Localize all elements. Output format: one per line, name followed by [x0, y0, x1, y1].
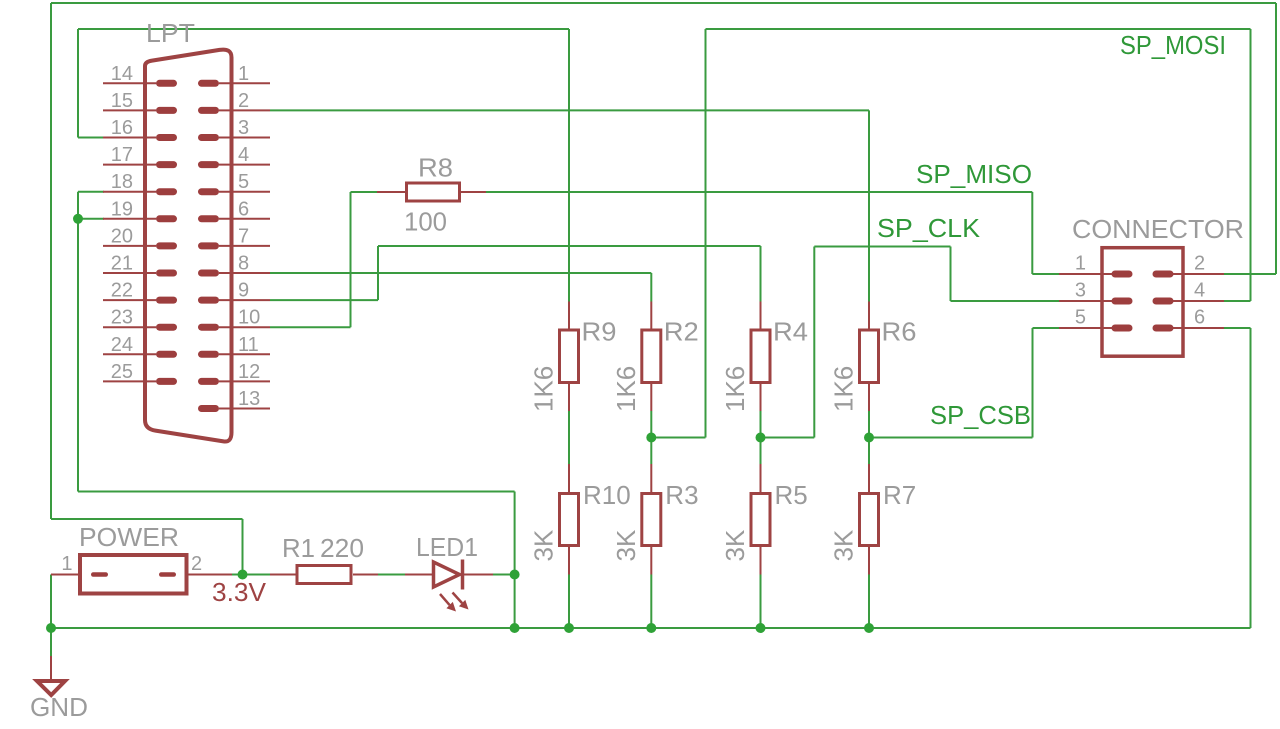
resistor R5 top lead: [760, 464, 762, 494]
wire LED cathode to GND link: [493, 574, 515, 576]
wire R6 column vertical: [868, 110, 870, 301]
wire LPT pin 24 lead: [103, 353, 156, 355]
svg-text:8: 8: [238, 253, 249, 275]
svg-text:21: 21: [111, 253, 133, 275]
LED LED1 light arrow 2: [453, 593, 469, 610]
pad LPT pin 19: [156, 215, 177, 222]
svg-text:5: 5: [238, 171, 249, 193]
wire POWER pin2 lead: [189, 574, 233, 576]
svg-text:2: 2: [191, 553, 202, 575]
LED LED1 triangle: [434, 562, 460, 587]
pad LPT pin 1: [198, 80, 219, 87]
ground GND triangle: [37, 681, 65, 695]
resistor R10 bottom lead: [568, 546, 570, 575]
wire LPT pin 25 lead: [103, 380, 156, 382]
wire SP_MISO R8 left lead link: [351, 191, 378, 193]
wire connector pin 3 lead: [1059, 300, 1112, 302]
wire connector pin 4 lead: [1173, 300, 1224, 302]
resistor R2 body: [642, 330, 661, 383]
svg-text:14: 14: [111, 63, 133, 85]
svg-text:SP_MISO: SP_MISO: [916, 159, 1032, 189]
pad connector pin 4: [1153, 298, 1174, 305]
wire 3K resistor bottom green segment column 3: [760, 575, 762, 629]
wire connector pin 5 lead: [1059, 327, 1112, 329]
resistor R4 bottom lead: [760, 383, 762, 412]
svg-text:1: 1: [1075, 253, 1086, 275]
svg-text:R6: R6: [882, 317, 917, 347]
wire LPT pin 20 lead: [103, 245, 156, 247]
resistor R5 body: [751, 494, 770, 546]
LED LED1 cathode lead: [463, 574, 494, 576]
wire LPT pin18 horizontal stub: [78, 191, 104, 193]
svg-text:R3: R3: [665, 480, 698, 510]
wire LPT pin 19 lead: [103, 218, 156, 220]
wire 3K resistor bottom green segment column 4: [868, 575, 870, 629]
resistor R1 left lead: [270, 574, 296, 576]
wire LPT pin8 horizontal to R2 column: [270, 272, 651, 274]
wire SP_MISO vertical x=1032 to connector pin1: [1031, 192, 1033, 274]
svg-text:22: 22: [111, 280, 133, 302]
pad LPT pin 13: [198, 405, 219, 412]
pad LPT pin 2: [198, 107, 219, 114]
svg-text:2: 2: [238, 90, 249, 112]
resistor R3 top lead: [650, 464, 652, 494]
wire 3.3V right border vertical: [1275, 3, 1277, 274]
wire divider mid green segment column 2: [650, 411, 652, 464]
wire LPT pin 11 lead: [219, 353, 270, 355]
wire LPT pin 12 lead: [219, 380, 270, 382]
wire connector pin6 horizontal: [1224, 327, 1251, 329]
wire LPT pin 1 lead: [219, 82, 270, 84]
LED LED1 cathode bar: [461, 560, 465, 590]
resistor R4 top lead: [760, 302, 762, 331]
resistor R7 top lead: [868, 464, 870, 494]
resistor R10 top lead: [568, 464, 570, 494]
pad LPT pin 3: [198, 134, 219, 141]
svg-text:17: 17: [111, 144, 133, 166]
wire LPT pin 2 lead: [219, 109, 270, 111]
wire LPT pin9 vertical riser x=378: [377, 246, 379, 300]
wire LPT pin 18 lead: [103, 191, 156, 193]
svg-text:1: 1: [61, 553, 72, 575]
svg-text:R8: R8: [418, 153, 453, 183]
connector POWER body: [80, 555, 187, 594]
pad LPT pin 8: [198, 270, 219, 277]
pad LPT pin 12: [198, 378, 219, 385]
wire LPT pin 5 lead: [219, 191, 270, 193]
resistor R8 body: [407, 183, 460, 201]
svg-text:13: 13: [238, 388, 260, 410]
svg-text:2: 2: [1194, 253, 1205, 275]
resistor R9 body: [560, 330, 579, 383]
wire R2 column vertical: [650, 273, 652, 302]
pad LPT pin 5: [198, 188, 219, 195]
resistor R8 left lead: [377, 191, 406, 193]
wire LPT pin 10 lead: [219, 326, 270, 328]
wire LPT pin 8 lead: [219, 272, 270, 274]
pad POWER pin 1: [91, 572, 108, 577]
wire LPT pin 23 lead: [103, 326, 156, 328]
wire LPT pin 9 lead: [219, 299, 270, 301]
wire LPT pin2 horizontal to R6 column: [270, 109, 869, 111]
svg-text:7: 7: [238, 225, 249, 247]
svg-text:1: 1: [238, 63, 249, 85]
wire connector pin 2 lead: [1173, 273, 1224, 275]
svg-text:10: 10: [238, 307, 260, 329]
resistor R3 bottom lead: [650, 546, 652, 575]
pad LPT pin 11: [198, 351, 219, 358]
node junction GND rail R7: [864, 623, 874, 633]
svg-text:R2: R2: [664, 317, 699, 347]
svg-text:20: 20: [111, 225, 133, 247]
resistor R4 body: [751, 330, 770, 383]
pad LPT pin 9: [198, 297, 219, 304]
wire SP_CSB vertical x=1032.5: [1032, 328, 1034, 438]
svg-text:9: 9: [238, 280, 249, 302]
svg-text:R4: R4: [773, 317, 808, 347]
wire GND bottom rail: [51, 627, 1251, 629]
svg-text:CONNECTOR: CONNECTOR: [1072, 214, 1244, 244]
pad LPT pin 4: [198, 161, 219, 168]
svg-text:25: 25: [111, 361, 133, 383]
wire LPT pin 7 lead: [219, 245, 270, 247]
wire 3.3V link horizontal y=519: [51, 518, 243, 520]
resistor R5 bottom lead: [760, 546, 762, 575]
wire LPT pin9 horizontal: [270, 299, 378, 301]
pad LPT pin 21: [156, 270, 177, 277]
wire connector pin 1 lead: [1059, 273, 1112, 275]
svg-text:R5: R5: [775, 480, 808, 510]
svg-text:1K6: 1K6: [720, 366, 750, 412]
wire SP_MOSI LPT pin16 vertical x=78: [77, 29, 79, 138]
resistor R6 body: [860, 330, 879, 383]
svg-text:SP_CSB: SP_CSB: [930, 400, 1031, 430]
wire 3.3V left border vertical: [50, 3, 52, 519]
svg-text:R1: R1: [282, 533, 315, 563]
wire connector pin 6 lead: [1173, 327, 1224, 329]
svg-text:3K: 3K: [720, 529, 750, 561]
wire connector pin1 horizontal: [1032, 273, 1059, 275]
wire LPT pin 16 lead: [103, 137, 156, 139]
wire 3.3V connector pin2 horizontal: [1224, 273, 1276, 275]
wire power pin2 junction link: [232, 574, 270, 576]
svg-text:1K6: 1K6: [829, 366, 859, 412]
pad LPT pin 24: [156, 351, 177, 358]
svg-text:12: 12: [238, 361, 260, 383]
wire LPT pin 21 lead: [103, 272, 156, 274]
svg-text:5: 5: [1075, 307, 1086, 329]
wire SP_CLK tap from R4 divider horizontal: [761, 437, 815, 439]
svg-text:19: 19: [111, 198, 133, 220]
node junction GND rail x=514.6: [510, 623, 520, 633]
wire SP_CSB horizontal from R6 divider: [869, 437, 1033, 439]
resistor R7 bottom lead: [868, 546, 870, 575]
resistor R10 body: [560, 494, 579, 546]
wire LPT pin 3 lead: [219, 137, 270, 139]
pad connector pin 1: [1112, 271, 1133, 278]
svg-text:3: 3: [238, 117, 249, 139]
node junction R2 divider mid: [646, 433, 656, 443]
wire GND branch horizontal y=491.5: [78, 491, 515, 493]
wire divider mid green segment column 4: [868, 411, 870, 464]
pad LPT pin 18: [156, 188, 177, 195]
wire LPT pin16 horizontal stub: [78, 137, 104, 139]
wire LPT pin 22 lead: [103, 299, 156, 301]
svg-text:LED1: LED1: [416, 532, 478, 562]
svg-text:GND: GND: [30, 692, 88, 722]
wire SP_MOSI horizontal left segment y=29: [78, 28, 569, 30]
svg-text:15: 15: [111, 90, 133, 112]
svg-text:6: 6: [1194, 307, 1205, 329]
node junction GND rail R3: [646, 623, 656, 633]
pad LPT pin 15: [156, 107, 177, 114]
svg-text:3K: 3K: [611, 529, 641, 561]
resistor R3 body: [642, 494, 661, 546]
wire LPT pin 14 lead: [103, 82, 156, 84]
pad LPT pin 14: [156, 80, 177, 87]
connector LPT body outline: [145, 50, 232, 442]
wire SP_CLK into connector pin3: [951, 300, 1060, 302]
wire SP_CLK vertical x=950.5: [950, 247, 952, 302]
wire connector pin4 horizontal: [1224, 300, 1251, 302]
wire SP_MOSI horizontal right segment y=29: [706, 28, 1251, 30]
pad LPT pin 22: [156, 297, 177, 304]
LED LED1 anode lead: [405, 574, 432, 576]
svg-text:3K: 3K: [529, 529, 559, 561]
resistor R1 body: [297, 566, 351, 584]
wire SP_MISO vertical x=350.5: [350, 192, 352, 327]
LED LED1 light arrow 1: [440, 594, 456, 612]
wire POWER pin1 lead: [51, 574, 78, 576]
wire SP_MOSI riser x=705.5: [705, 29, 707, 438]
node junction LED cathode: [510, 570, 520, 580]
wire SP_CLK tap horizontal y=246.5: [814, 246, 950, 248]
pad LPT pin 23: [156, 324, 177, 331]
svg-text:16: 16: [111, 117, 133, 139]
svg-text:4: 4: [238, 144, 249, 166]
wire R4 column vertical: [760, 246, 762, 302]
svg-text:1K6: 1K6: [611, 366, 641, 412]
wire LPT pin 6 lead: [219, 218, 270, 220]
svg-text:4: 4: [1194, 280, 1205, 302]
svg-text:220: 220: [320, 533, 364, 563]
resistor R6 bottom lead: [868, 383, 870, 412]
resistor R7 body: [860, 494, 879, 546]
svg-text:LPT: LPT: [146, 18, 195, 48]
svg-text:11: 11: [238, 334, 259, 356]
wire GND left vertical below power: [50, 575, 52, 657]
node junction R4 divider mid: [756, 433, 766, 443]
node junction GND rail R10: [564, 623, 574, 633]
svg-text:R10: R10: [583, 480, 631, 510]
wire 3.3V top border horizontal: [51, 2, 1276, 4]
resistor R9 top lead: [568, 302, 570, 331]
wire 3K resistor bottom green segment column 1: [568, 575, 570, 629]
resistor R2 top lead: [650, 302, 652, 331]
pad LPT pin 16: [156, 134, 177, 141]
wire divider mid green segment column 3: [760, 411, 762, 464]
svg-text:SP_MOSI: SP_MOSI: [1120, 30, 1226, 60]
wire LPT pin 13 lead: [219, 408, 270, 410]
resistor R6 top lead: [868, 302, 870, 331]
svg-text:6: 6: [238, 198, 249, 220]
wire GND vertical x=1250.5 right side: [1250, 328, 1252, 628]
wire SP_MOSI vertical x=1250.5 to connector pin4: [1250, 29, 1252, 301]
pad LPT pin 20: [156, 242, 177, 249]
svg-text:POWER: POWER: [79, 522, 179, 552]
wire SP_CLK tap vertical x=814.3 from R4 divider: [813, 247, 815, 438]
pad connector pin 2: [1153, 271, 1174, 278]
svg-text:18: 18: [111, 171, 133, 193]
svg-text:1K6: 1K6: [529, 366, 559, 412]
wire LPT pin19 horizontal stub: [78, 218, 104, 220]
wire divider mid green segment column 1: [568, 411, 570, 464]
node junction 3.3V at power: [238, 570, 248, 580]
resistor R2 bottom lead: [650, 383, 652, 412]
pad LPT pin 17: [156, 161, 177, 168]
svg-text:3K: 3K: [829, 529, 859, 561]
svg-text:R9: R9: [582, 317, 617, 347]
pad LPT pin 25: [156, 378, 177, 385]
ground GND stub: [50, 656, 52, 679]
wire SP_MOSI tap from R2 divider: [651, 437, 705, 439]
wire GND branch vertical x=78: [77, 192, 79, 492]
resistor R9 bottom lead: [568, 383, 570, 412]
node junction R6 divider mid: [864, 433, 874, 443]
connector CONNECTOR body: [1102, 248, 1183, 357]
svg-text:3.3V: 3.3V: [212, 577, 267, 607]
wire R9 column vertical from y=29: [568, 29, 570, 302]
svg-text:24: 24: [111, 334, 133, 356]
svg-text:R7: R7: [883, 480, 916, 510]
wire SP_MISO horizontal from R8 to x=1032: [485, 191, 1032, 193]
wire 3.3V vertical to power junction: [242, 519, 244, 575]
wire R1 to LED link: [378, 574, 405, 576]
wire LPT pin 4 lead: [219, 164, 270, 166]
pad LPT pin 10: [198, 324, 219, 331]
svg-text:23: 23: [111, 307, 133, 329]
pad connector pin 3: [1112, 298, 1133, 305]
wire GND branch vertical x=514.6: [514, 492, 516, 629]
pad connector pin 5: [1112, 325, 1133, 332]
wire LPT pin 17 lead: [103, 164, 156, 166]
wire LPT pin10 horizontal: [270, 326, 351, 328]
pad POWER pin 2: [159, 572, 176, 577]
resistor R1 right lead: [353, 574, 378, 576]
node junction LPT pin19 GND: [73, 214, 83, 224]
resistor R8 right lead: [460, 191, 486, 193]
wire SP_CSB into connector pin5: [1033, 327, 1060, 329]
svg-text:SP_CLK: SP_CLK: [877, 213, 981, 243]
node junction GND rail R5: [756, 623, 766, 633]
pad LPT pin 7: [198, 242, 219, 249]
pad LPT pin 6: [198, 215, 219, 222]
wire 3K resistor bottom green segment column 2: [650, 575, 652, 629]
pad connector pin 6: [1153, 325, 1174, 332]
svg-text:3: 3: [1075, 280, 1086, 302]
node junction GND rail left: [46, 623, 56, 633]
wire pin9 to R4 column horizontal y=246: [378, 245, 761, 247]
wire LPT pin 15 lead: [103, 109, 156, 111]
svg-text:100: 100: [404, 207, 447, 237]
